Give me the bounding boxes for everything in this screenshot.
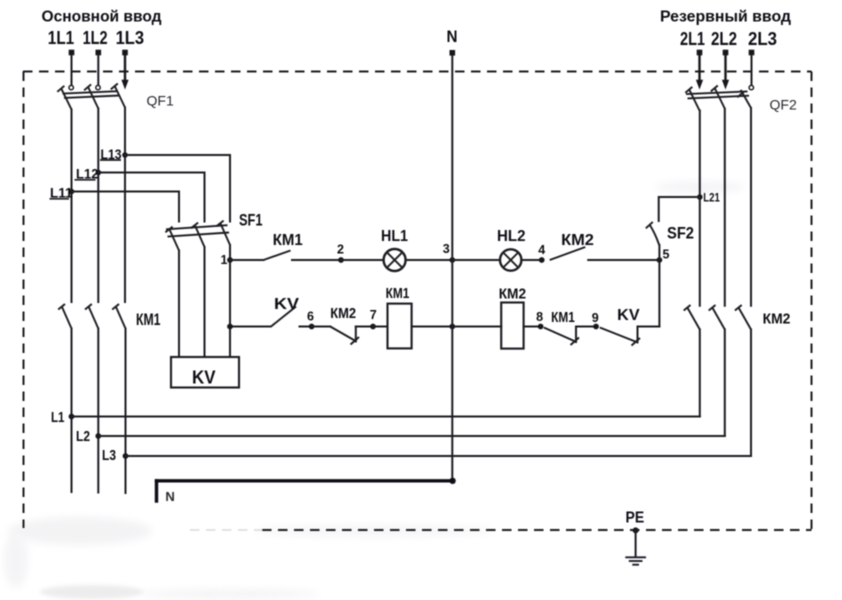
- bus L1: [72, 416, 700, 418]
- contact KV (NC, row 2) blade: [600, 328, 638, 343]
- svg-text:PE: PE: [626, 510, 645, 527]
- switch SF2 upper lead: [659, 197, 700, 221]
- N bus horizontal (thick): [157, 479, 453, 482]
- N bus end drop: [155, 481, 158, 501]
- svg-text:КМ1: КМ1: [136, 311, 161, 329]
- KM2 NC riser: [355, 327, 357, 342]
- switch SF2 blade: [650, 225, 660, 246]
- wire node 6 to KM2 NC contact: [312, 326, 331, 328]
- svg-text:3: 3: [443, 242, 450, 256]
- node 3: [449, 257, 455, 263]
- svg-text:N: N: [447, 27, 458, 46]
- QF2 pole 3 latch tick: [737, 91, 744, 97]
- node L12: [96, 170, 102, 176]
- N bus corner dot: [449, 478, 455, 484]
- wire row 2 from SF1 junction: [230, 326, 271, 328]
- svg-text:1L1: 1L1: [48, 28, 74, 48]
- wire contact to node 2: [292, 259, 341, 261]
- SF1 pole 3 latch tick: [216, 221, 223, 227]
- wire L12 to SF1 pole 2: [98, 173, 204, 222]
- node 4: [539, 257, 545, 263]
- coil KM2: [501, 303, 523, 349]
- wire L11 to SF1 pole 1: [72, 192, 180, 222]
- QF2 pole 1 arrowhead: [696, 80, 703, 90]
- enclosure dashed border bottom: [262, 529, 812, 531]
- contact KM1 (NO, row 1) blade: [264, 251, 291, 261]
- KM2 pole 1 tick: [684, 305, 691, 311]
- QF1 pole 2 fixed contact circle: [96, 85, 100, 89]
- svg-text:2L1: 2L1: [680, 29, 705, 49]
- node L1: [69, 414, 75, 420]
- wire 1L1 to QF1 pole 1: [71, 55, 73, 85]
- KM1 NC hook tick: [571, 338, 580, 346]
- svg-text:4: 4: [538, 243, 545, 257]
- QF1 pole 2 latch tick: [84, 84, 91, 90]
- svg-text:Резервный ввод: Резервный ввод: [660, 9, 791, 26]
- junction row2 on SF1 pole 3: [227, 324, 233, 330]
- svg-text:HL2: HL2: [497, 228, 526, 245]
- KM2 pole 3 tick: [735, 305, 742, 311]
- KV NC hook tick: [632, 338, 641, 346]
- contactor KM1 pole 3 blade: [116, 307, 126, 329]
- coil KM1: [388, 304, 412, 349]
- KM2 NC hook tick: [351, 337, 360, 345]
- ground symbol: [625, 557, 646, 564]
- wire 2L3 to QF2 pole 3: [751, 55, 753, 85]
- svg-text:1L3: 1L3: [116, 28, 145, 48]
- wire contact to node 5: [588, 259, 659, 261]
- node 9: [593, 324, 599, 330]
- QF1 pole 2 blade: [88, 87, 98, 109]
- lamp HL1: [384, 249, 406, 271]
- svg-text:КМ1: КМ1: [386, 286, 410, 302]
- SF1 pole 2 blade: [195, 226, 205, 248]
- terminal N: [450, 50, 456, 56]
- node L3: [123, 453, 129, 459]
- node 6: [309, 324, 315, 330]
- contact KV (NO, row 2) blade: [271, 307, 296, 327]
- contactor KM2 pole 2 blade: [712, 308, 725, 330]
- QF1 pole 1 blade: [61, 88, 71, 109]
- svg-text:5: 5: [663, 248, 670, 262]
- svg-text:2: 2: [337, 243, 344, 257]
- QF2 pole 1 blade: [689, 89, 699, 110]
- wire SF1 pole 2 to KV box: [204, 247, 206, 357]
- wire N vertical: [451, 56, 453, 481]
- wire KM2 pole 1 down to L1 bus: [699, 330, 701, 417]
- svg-text:L1: L1: [51, 409, 65, 426]
- KM1 pole 3 tick: [112, 304, 119, 310]
- node L13: [122, 152, 128, 158]
- bus L3: [126, 455, 752, 457]
- wire L13 to SF1 pole 3: [125, 155, 230, 222]
- contactor KM1 pole 1 blade: [62, 307, 72, 329]
- svg-text:КМ1: КМ1: [273, 232, 303, 249]
- svg-text:QF1: QF1: [147, 93, 174, 109]
- wire KM2 pole 3 down to L3 bus: [750, 330, 752, 457]
- wire SF2 to node 5: [658, 245, 660, 260]
- node 8: [538, 324, 544, 330]
- wire QF1 pole 3 down: [124, 108, 126, 303]
- contact KM2 (NC, row 2) blade: [330, 327, 356, 342]
- wire QF2 pole 2 down: [724, 109, 726, 306]
- KM1 NC riser: [575, 327, 577, 343]
- svg-text:КМ2: КМ2: [763, 311, 791, 328]
- wire node 3 to lamp HL2: [452, 259, 500, 261]
- QF1 pole 3 latch tick: [111, 84, 118, 90]
- wire coil KM2 to node 8: [524, 326, 541, 328]
- terminal 2L1: [697, 50, 703, 56]
- node 7: [370, 324, 376, 330]
- svg-text:SF1: SF1: [239, 212, 263, 230]
- svg-text:9: 9: [592, 311, 599, 325]
- wire 2L2 to QF2 pole 2 arrow: [724, 55, 726, 81]
- wire riser to row2 right end: [638, 326, 660, 328]
- wire QF1 pole 2 down: [97, 109, 99, 303]
- node 1: [227, 257, 233, 263]
- wire KM1 pole 3 down: [125, 329, 127, 494]
- wire QF2 pole 3 down: [750, 108, 752, 306]
- wire HL1 to node 3: [406, 259, 453, 261]
- junction row2 on N line: [449, 324, 455, 330]
- wire KM2 pole 2 down to L2 bus: [724, 330, 726, 437]
- KM1 pole 2 tick: [85, 304, 92, 310]
- terminal 2L2: [723, 50, 729, 56]
- wire SF1 pole 1 to KV box: [178, 251, 180, 358]
- wire HL2 to node 4: [522, 259, 542, 261]
- node 2: [338, 257, 344, 263]
- svg-text:KV: KV: [274, 296, 299, 313]
- wire QF2 pole 1 down: [699, 111, 701, 306]
- SF2 latch tick: [646, 222, 653, 228]
- node L11: [69, 189, 75, 195]
- wire 1L2 to QF1 pole 2: [97, 55, 99, 85]
- svg-text:6: 6: [307, 310, 314, 324]
- QF1 pole 1 latch tick: [57, 86, 64, 92]
- bus L2: [98, 435, 725, 437]
- enclosure dashed border bottom faded part: [190, 529, 262, 531]
- KV NC riser: [637, 327, 639, 343]
- wire KV contact to node 6: [300, 326, 312, 328]
- wire 1L3 to QF1 pole 3 arrow: [124, 55, 126, 81]
- SF1 pole 2 latch tick: [191, 223, 198, 229]
- SF1 crossbar (double tie bar): [166, 225, 229, 236]
- svg-text:HL1: HL1: [381, 228, 408, 245]
- svg-text:2L3: 2L3: [748, 29, 777, 49]
- svg-text:КМ2: КМ2: [330, 305, 356, 322]
- SF1 pole 1 latch tick: [165, 227, 172, 233]
- svg-text:L21: L21: [703, 191, 720, 205]
- svg-text:КМ2: КМ2: [499, 287, 526, 303]
- node 5: [657, 257, 663, 263]
- svg-text:7: 7: [370, 308, 377, 322]
- node L21: [697, 194, 703, 200]
- wire node 7 to coil KM1: [373, 326, 388, 328]
- wire QF1 pole 1 down: [71, 110, 73, 303]
- wire node 5 down to row 2: [658, 260, 660, 327]
- relay box KV: [171, 357, 239, 388]
- terminal 1L2: [96, 50, 102, 56]
- svg-text:L2: L2: [76, 428, 90, 445]
- wire SF1 pole 3 down to KV box: [229, 245, 231, 357]
- node PE on border: [633, 527, 639, 533]
- QF2 pole 2 latch tick: [711, 86, 718, 92]
- QF1 crossbar (double tie bar): [63, 91, 120, 98]
- contactor KM2 pole 1 blade: [687, 308, 700, 330]
- enclosure dashed border right: [811, 72, 813, 531]
- svg-text:1L2: 1L2: [83, 28, 108, 48]
- svg-text:L3: L3: [102, 447, 116, 464]
- ground stem: [635, 530, 637, 556]
- svg-text:SF2: SF2: [667, 225, 694, 243]
- svg-text:QF2: QF2: [770, 97, 797, 113]
- wire KM1 pole 2 down: [97, 329, 99, 493]
- QF1 pole 3 arrowhead: [121, 80, 128, 90]
- svg-text:KV: KV: [617, 307, 640, 324]
- contact KM1 (NC, row 2) blade: [544, 328, 577, 343]
- svg-text:8: 8: [536, 310, 543, 324]
- wire riser to node 9: [576, 326, 596, 328]
- QF2 pole 3 fixed contact circle: [749, 85, 753, 89]
- lamp HL2: [500, 249, 521, 270]
- wire node 1 right: [230, 259, 264, 261]
- svg-text:КМ2: КМ2: [561, 232, 594, 249]
- SF1 pole 3 blade: [221, 224, 231, 246]
- QF2 pole 1 latch tick: [685, 87, 692, 93]
- wire 2L1 to QF2 pole 1 arrow: [698, 55, 700, 81]
- terminal 2L3: [749, 50, 755, 56]
- svg-text:1: 1: [221, 253, 228, 267]
- KM2 pole 2 tick: [709, 305, 716, 311]
- QF2 pole 2 blade: [715, 88, 725, 109]
- node L2: [95, 433, 101, 439]
- wire N junction to coil KM2: [452, 326, 501, 328]
- terminal 1L3: [122, 50, 128, 56]
- QF1 pole 1 fixed contact circle: [69, 85, 73, 89]
- svg-text:2L2: 2L2: [711, 29, 737, 49]
- KM1 pole 1 tick: [58, 304, 65, 310]
- wire node 2 to lamp HL1: [341, 259, 383, 261]
- contactor KM2 pole 3 blade: [739, 308, 752, 330]
- svg-text:КМ1: КМ1: [551, 310, 575, 326]
- QF2 pole 2 arrowhead: [722, 80, 729, 90]
- wire coil KM1 to N junction: [412, 326, 453, 328]
- enclosure dashed border top: [23, 71, 812, 73]
- wire KM1 pole 1 down: [71, 329, 73, 493]
- QF1 pole 3 blade: [115, 86, 125, 108]
- contact KM2 (NO, row 1) blade: [550, 247, 586, 260]
- QF2 crossbar (double tie bar): [686, 91, 749, 98]
- svg-text:N: N: [165, 489, 174, 504]
- contactor KM1 pole 2 blade: [89, 307, 99, 329]
- svg-text:Основной ввод: Основной ввод: [42, 9, 162, 26]
- QF2 pole 3 blade: [741, 90, 751, 108]
- wire riser to node 7: [356, 326, 373, 328]
- SF1 pole 1 blade: [170, 230, 180, 251]
- svg-text:KV: KV: [192, 368, 216, 388]
- terminal 1L1: [69, 50, 75, 56]
- enclosure dashed border left: [23, 72, 25, 529]
